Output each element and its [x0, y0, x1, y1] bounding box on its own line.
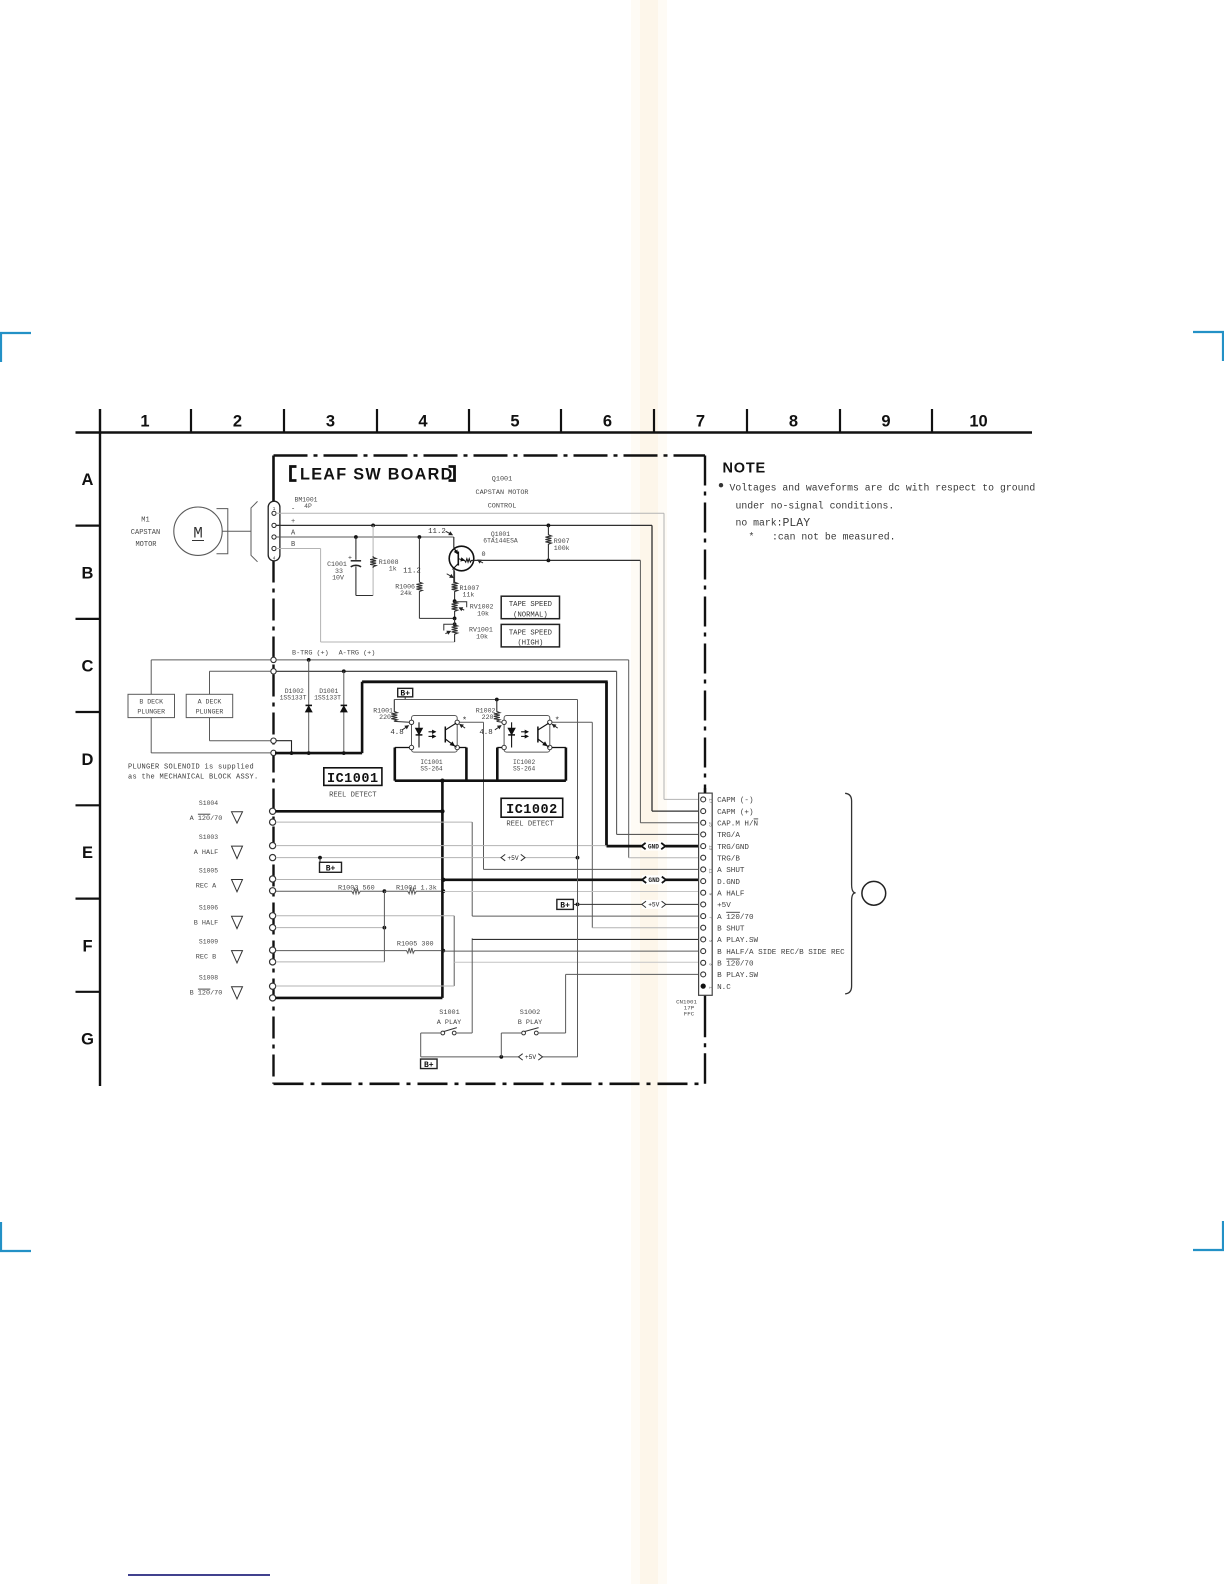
switch S1009 bottom contact	[270, 959, 276, 965]
wire IC1002 output to B SHUT	[552, 721, 592, 723]
svg-text:A 120/70: A 120/70	[190, 815, 223, 823]
wire C1001 to R1008 bottom	[356, 595, 373, 597]
heavy ground top rail	[362, 680, 608, 683]
note bullet line 1	[719, 483, 723, 487]
svg-text:R1005 300: R1005 300	[397, 941, 434, 949]
GND tag on D.GND	[642, 875, 666, 884]
switch S1006 bottom contact	[270, 925, 276, 931]
svg-text:REEL DETECT: REEL DETECT	[506, 820, 554, 828]
resistor R907	[547, 524, 551, 528]
transistor Q1001	[453, 537, 455, 548]
board frame left edge upper solid	[272, 456, 275, 502]
svg-text:FFC: FFC	[684, 1010, 695, 1017]
CN1001 pin 17 CAPM (-)	[701, 797, 706, 802]
svg-text:S1009: S1009	[199, 939, 218, 946]
svg-text:TAPE SPEED: TAPE SPEED	[509, 629, 552, 637]
vertical tie at R node	[383, 891, 385, 962]
switch S1001 A PLAY	[441, 1031, 445, 1035]
svg-text:10k: 10k	[476, 633, 488, 640]
svg-text:B SHUT: B SHUT	[717, 925, 745, 933]
svg-text:S1004: S1004	[199, 800, 218, 807]
blue registration mark top-left	[0, 332, 31, 334]
svg-text:0: 0	[481, 551, 485, 559]
svg-text:15: 15	[708, 822, 712, 828]
svg-text:S1002: S1002	[520, 1009, 540, 1017]
switch S1004 top contact	[270, 808, 276, 814]
wire S1008 bottom heavy ground	[276, 997, 443, 1000]
CN1001 pin 13 TRG/GND	[701, 844, 706, 849]
IC1001 pin bottom-right	[455, 745, 459, 749]
wire motor to bracket	[222, 530, 251, 532]
svg-text:B+: B+	[560, 902, 570, 911]
svg-text:4: 4	[418, 413, 428, 431]
IC1002 pin top-right	[548, 720, 552, 724]
navy footer rule	[128, 1574, 270, 1576]
svg-text:F: F	[82, 937, 92, 955]
wire A PLAY.SW vertical	[471, 938, 473, 1033]
wire minus net	[276, 512, 664, 514]
capacitor C1001	[354, 535, 358, 539]
wire S1005 top to ground	[276, 879, 444, 881]
B+ box top	[398, 688, 413, 697]
resistor R1006	[418, 535, 422, 539]
svg-text:B HALF/A SIDE REC/B SIDE REC: B HALF/A SIDE REC/B SIDE REC	[717, 949, 845, 957]
svg-text:REC B: REC B	[196, 954, 216, 962]
pad on frame A-TRG	[271, 669, 276, 674]
svg-text:GND: GND	[648, 843, 659, 850]
wire S1002 left to +5V node	[501, 1032, 521, 1034]
IC1001 pin top-right	[455, 720, 459, 724]
CN1001 pin 11 A SHUT	[701, 867, 706, 872]
svg-text:1k: 1k	[389, 566, 397, 573]
IC1001 light arrows	[429, 731, 436, 733]
title LEAF SW BOARD	[291, 467, 297, 481]
blue registration mark bottom-right	[1193, 1249, 1224, 1251]
svg-text:under no-signal conditions.: under no-signal conditions.	[736, 501, 895, 512]
svg-text:11.2: 11.2	[428, 528, 446, 536]
pad on frame lower A	[271, 738, 276, 743]
svg-text:A DECK: A DECK	[198, 699, 222, 706]
BM1001 pin 1	[272, 511, 276, 515]
svg-text:B-TRG (+): B-TRG (+)	[292, 650, 329, 658]
svg-text:A 120/70: A 120/70	[717, 914, 754, 922]
svg-text:11.2: 11.2	[403, 568, 421, 576]
heavy ground riser to switch rail	[441, 781, 444, 812]
svg-text:4: 4	[273, 556, 276, 562]
svg-text:(HIGH): (HIGH)	[517, 640, 543, 648]
wire S1001 right to A PLAY.SW	[456, 1032, 472, 1034]
svg-text:CAPSTAN: CAPSTAN	[131, 529, 160, 537]
wire S1006 top to vertical A	[276, 915, 455, 917]
svg-text:1: 1	[140, 413, 149, 431]
svg-text:no mark:: no mark:	[736, 518, 783, 529]
svg-text:G: G	[81, 1031, 94, 1049]
CN1001 pin 12 TRG/B	[701, 855, 706, 860]
svg-text:B+: B+	[424, 1061, 434, 1070]
svg-text:B: B	[82, 565, 94, 583]
GND tag on TRG/GND	[641, 842, 665, 851]
svg-text:220: 220	[482, 714, 494, 721]
wire S1002 right to B PLAY.SW	[538, 1032, 565, 1034]
motor M1 symbol	[174, 507, 222, 555]
frame stub above connector	[704, 788, 706, 793]
svg-text:S1001: S1001	[439, 1009, 459, 1017]
wire A plunger to lower pad	[209, 718, 211, 741]
wire +5V row to pin	[578, 903, 701, 905]
svg-text:MOTOR: MOTOR	[135, 541, 157, 549]
wire A net	[276, 536, 454, 538]
vertical A tie wire	[453, 916, 455, 986]
wire plus net	[276, 524, 652, 526]
svg-text:S1006: S1006	[199, 904, 218, 911]
wire S1008 top	[276, 985, 455, 987]
wire S1005 bottom with R1003	[276, 889, 385, 894]
wire B PLAY.SW vertical	[565, 974, 567, 1033]
B+ box at S1003	[319, 858, 321, 863]
svg-text:TAPE SPEED: TAPE SPEED	[509, 601, 552, 609]
IC1001 pin bottom-left	[409, 745, 413, 749]
svg-text:10k: 10k	[477, 610, 489, 617]
svg-text:A SHUT: A SHUT	[717, 867, 745, 875]
svg-text:6: 6	[603, 413, 612, 431]
svg-text:C: C	[82, 658, 94, 676]
svg-text:S1008: S1008	[199, 975, 218, 982]
svg-text:1SS133T: 1SS133T	[280, 695, 307, 702]
blue registration mark top-right	[1193, 331, 1224, 333]
wire S1003 top to ground corner	[276, 845, 607, 847]
opto interrupter IC1002 body	[504, 716, 550, 753]
IC1001 name box	[324, 768, 382, 786]
svg-text:S1005: S1005	[199, 868, 218, 875]
wire S1009 bottom	[276, 961, 385, 963]
wire IC1001 output to A SHUT	[459, 721, 483, 723]
CN1001 pin 4 B HALF/A SIDE REC/B SIDE REC	[701, 949, 706, 954]
wire B120/70 row to pin	[454, 961, 701, 963]
connector BM1001 body	[268, 501, 280, 561]
svg-text:M1: M1	[141, 516, 149, 524]
svg-text:PLUNGER: PLUNGER	[196, 709, 224, 716]
wire A plunger to A-TRG pad	[209, 671, 211, 694]
svg-text:10: 10	[969, 413, 987, 431]
CN1001 pin 14 TRG/A	[701, 832, 706, 837]
heavy D.GND wire	[443, 878, 701, 881]
svg-text:4P: 4P	[304, 503, 312, 510]
svg-text:CAPSTAN MOTOR: CAPSTAN MOTOR	[475, 489, 528, 497]
svg-text:9: 9	[881, 413, 890, 431]
CN1001 pin 10 D.GND	[701, 879, 706, 884]
board frame right edge upper	[704, 456, 706, 794]
IC1002 light arrows	[521, 731, 528, 733]
B+ / +5V feeder vertical	[577, 700, 579, 1057]
CN1001 pin 2 B PLAY.SW	[701, 972, 706, 977]
svg-text:24k: 24k	[400, 590, 412, 597]
svg-text:LEAF SW BOARD: LEAF SW BOARD	[300, 466, 454, 484]
svg-text:+5V: +5V	[717, 902, 731, 910]
svg-text:6TA144ESA: 6TA144ESA	[483, 538, 518, 545]
wire S1001 left to +5V	[421, 1032, 441, 1034]
trimmer RV1002	[452, 601, 458, 618]
wire pad elbow to ground rail	[276, 741, 291, 753]
grid row ticks	[76, 524, 101, 526]
blue registration mark bottom-left	[0, 1250, 31, 1252]
+5V tag bottom	[519, 1052, 543, 1061]
svg-text:13: 13	[708, 845, 712, 851]
svg-text:100k: 100k	[554, 545, 570, 552]
heavy ground wire from pad to rail	[275, 752, 362, 755]
svg-text:M: M	[193, 525, 203, 543]
board frame right edge lower	[704, 995, 706, 1084]
svg-text:A: A	[82, 471, 94, 489]
wire S1004 top to ground riser	[276, 810, 443, 813]
svg-text:A HALF: A HALF	[717, 890, 745, 898]
wire B-TRG net	[276, 659, 629, 661]
svg-text:PLUNGER: PLUNGER	[137, 709, 165, 716]
IC1001 pin top-left	[409, 720, 413, 724]
wire R1006 bottom to RV node	[419, 617, 454, 619]
B+ rail wire	[394, 699, 577, 701]
board frame left edge dash-dot	[272, 561, 274, 1084]
svg-text:-: -	[291, 506, 295, 514]
pad on frame B-TRG	[271, 657, 276, 662]
svg-text:B PLAY.SW: B PLAY.SW	[717, 972, 758, 980]
svg-text:A PLAY: A PLAY	[437, 1019, 461, 1027]
CN1001 pin 9 A HALF	[701, 890, 706, 895]
IC1002 name box	[501, 798, 563, 817]
svg-text:S1003: S1003	[199, 834, 218, 841]
opto interrupter IC1001 body	[412, 716, 458, 753]
svg-text:5: 5	[510, 413, 519, 431]
svg-text:IC1001: IC1001	[327, 772, 379, 787]
heavy ground riser lower	[441, 811, 444, 998]
svg-text:+5V: +5V	[507, 855, 518, 862]
diode D1002	[307, 658, 311, 662]
resistor R1001	[391, 700, 397, 722]
svg-text:PLUNGER SOLENOID is supplied: PLUNGER SOLENOID is supplied	[128, 763, 254, 771]
CN1001 pin 5 A PLAY.SW	[701, 937, 706, 942]
switch S1003 top contact	[270, 843, 276, 849]
svg-text:B PLAY: B PLAY	[518, 1019, 542, 1027]
B+ box mid	[557, 899, 574, 909]
CN1001 pin 16 CAPM (+)	[701, 809, 706, 814]
diode D1001	[342, 669, 346, 673]
heavy ground drop to TRG/GND	[605, 682, 608, 846]
board frame top edge	[274, 454, 706, 457]
+5V tag on +5V pin row	[642, 900, 666, 909]
svg-text:TRG/B: TRG/B	[717, 855, 740, 863]
svg-text:*: *	[462, 716, 467, 726]
switch S1008 top contact	[270, 983, 276, 989]
switch S1008 bottom contact	[270, 995, 276, 1001]
pad on frame ground	[271, 750, 276, 755]
svg-text:SS-264: SS-264	[513, 765, 536, 772]
resistor R1004 wire to ground riser	[384, 889, 443, 894]
svg-text:7: 7	[696, 413, 705, 431]
svg-text:A HALF: A HALF	[194, 849, 218, 857]
svg-text:PLAY: PLAY	[783, 517, 811, 530]
svg-text:8: 8	[789, 413, 798, 431]
brace for connector group	[845, 793, 856, 994]
svg-text:17: 17	[708, 798, 712, 804]
svg-text:SS-264: SS-264	[420, 765, 443, 772]
svg-text:as the MECHANICAL BLOCK ASSY.: as the MECHANICAL BLOCK ASSY.	[128, 774, 259, 782]
svg-text:GND: GND	[648, 877, 659, 884]
svg-text:A PLAY.SW: A PLAY.SW	[717, 937, 758, 945]
CN1001 pin 7 A 120/70	[701, 914, 706, 919]
svg-text:REC A: REC A	[196, 883, 217, 891]
svg-text:TRG/A: TRG/A	[717, 832, 740, 840]
svg-text:1: 1	[273, 506, 276, 512]
svg-text:REEL DETECT: REEL DETECT	[329, 792, 377, 800]
IC1002 pin bottom-right	[548, 745, 552, 749]
resistor R1007	[452, 582, 458, 601]
IC1001 phototransistor	[444, 727, 446, 743]
BM1001 pin 3	[272, 535, 276, 539]
svg-text:NOTE: NOTE	[723, 461, 766, 477]
wire B net	[276, 548, 321, 550]
svg-text:1SS133T: 1SS133T	[314, 695, 341, 702]
svg-text:B HALF: B HALF	[194, 919, 218, 927]
svg-text:TRG/GND: TRG/GND	[717, 844, 749, 852]
svg-text:11: 11	[708, 868, 712, 874]
grid column ticks	[190, 409, 192, 433]
svg-text:B: B	[291, 541, 295, 549]
CN1001 pin 1 N.C	[701, 984, 706, 989]
svg-text:D: D	[82, 751, 94, 769]
svg-text:10V: 10V	[332, 575, 344, 582]
switch S1002 B PLAY	[522, 1031, 526, 1035]
svg-text:3: 3	[326, 413, 335, 431]
svg-text:CAPM (+): CAPM (+)	[717, 809, 753, 817]
switch S1009 actuator	[232, 951, 243, 963]
box A DECK PLUNGER	[186, 694, 233, 717]
svg-text:4.8: 4.8	[390, 729, 403, 737]
CN1001 pin 15 CAP.M H/N	[701, 820, 706, 825]
wire A HALF row to pin	[443, 891, 701, 893]
svg-text:* :can not be measured.: * :can not be measured.	[749, 531, 896, 542]
switch S1003 actuator	[232, 846, 243, 859]
wire Q1001 base divider	[453, 570, 455, 584]
wire S1006 bottom	[276, 927, 385, 929]
callout circle	[862, 881, 886, 905]
CN1001 pin 3 B 120/70	[701, 960, 706, 965]
svg-text:CONTROL: CONTROL	[488, 502, 517, 510]
BM1001 pin 2	[272, 523, 276, 527]
heavy opto emitter rail	[395, 779, 566, 782]
switch S1008 actuator	[232, 987, 243, 999]
switch S1005 actuator	[232, 880, 243, 892]
resistor R1002	[494, 700, 500, 722]
B+ box bottom	[421, 1059, 438, 1069]
trimmer RV1001	[453, 622, 457, 626]
svg-text:+5V: +5V	[648, 902, 659, 909]
svg-text:B 120/70: B 120/70	[717, 961, 754, 969]
wire S1004 bottom A120/70 net	[276, 821, 473, 823]
switch S1009 top contact	[270, 947, 276, 953]
svg-text:Voltages and waveforms are dc: Voltages and waveforms are dc with respe…	[730, 483, 1036, 494]
svg-text:B+: B+	[326, 864, 336, 873]
svg-text:E: E	[82, 844, 93, 862]
svg-text:4.8: 4.8	[479, 729, 492, 737]
svg-text:220: 220	[379, 714, 391, 721]
svg-text:N.C: N.C	[717, 984, 731, 992]
svg-text:A-TRG (+): A-TRG (+)	[339, 650, 376, 658]
connector CN1001 body	[699, 793, 713, 995]
svg-text:+5V: +5V	[525, 1054, 536, 1061]
wire S1003 bottom +5V net	[276, 857, 578, 859]
wire B plunger to ground pad	[150, 718, 152, 753]
svg-text:11k: 11k	[463, 592, 475, 599]
switch S1005 bottom contact	[270, 888, 276, 894]
IC1002 LED	[511, 722, 513, 728]
IC1002 pin bottom-left	[502, 745, 506, 749]
switch S1003 bottom contact	[270, 855, 276, 861]
IC1002 phototransistor	[537, 727, 539, 743]
box B DECK PLUNGER	[128, 694, 175, 717]
IC1001 LED	[418, 722, 420, 728]
svg-text:CAP.M H/N: CAP.M H/N	[717, 820, 758, 828]
svg-text:B 120/70: B 120/70	[190, 990, 223, 998]
callout box TAPE SPEED HIGH	[501, 624, 559, 647]
CN1001 pin 6 B SHUT	[701, 925, 706, 930]
switch S1006 actuator	[232, 916, 243, 928]
wire Q1001 emitter net	[474, 559, 641, 561]
IC1002 pin top-left	[502, 720, 506, 724]
svg-text:IC1002: IC1002	[506, 803, 558, 818]
mechanical bracket	[251, 501, 258, 561]
+5V tag near optos	[501, 853, 525, 862]
switch S1004 bottom contact	[270, 819, 276, 825]
switch S1004 actuator	[232, 812, 243, 823]
wire A-TRG net	[276, 670, 616, 672]
wire B plunger to B-TRG pad	[150, 660, 152, 694]
svg-text:D.GND: D.GND	[717, 879, 740, 887]
svg-text:*: *	[555, 716, 560, 726]
scan fold tint band	[631, 0, 667, 1584]
callout box TAPE SPEED NORMAL	[501, 596, 559, 619]
switch S1005 top contact	[270, 876, 276, 882]
svg-text:B DECK: B DECK	[139, 699, 163, 706]
resistor R1008	[371, 524, 375, 528]
CN1001 pin 8 +5V	[701, 902, 706, 907]
board frame bottom edge	[274, 1083, 706, 1086]
BM1001 pin 4	[272, 546, 276, 550]
svg-text:Q1001: Q1001	[492, 476, 512, 484]
svg-text:2: 2	[233, 413, 242, 431]
grid ruler left spine	[99, 409, 101, 1086]
svg-text:CAPM (-): CAPM (-)	[717, 797, 753, 805]
svg-text:(NORMAL): (NORMAL)	[513, 611, 548, 619]
switch S1006 top contact	[270, 913, 276, 919]
wire S1009 top with R1005 to pin14	[276, 948, 444, 953]
grid ruler horizontal line	[76, 431, 1033, 433]
